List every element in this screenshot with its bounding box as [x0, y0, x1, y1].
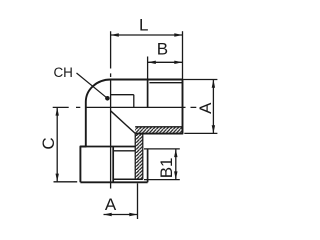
dimension A bottom — [104, 183, 138, 219]
svg-text:B: B — [157, 39, 168, 58]
bottom face — [80, 181, 147, 183]
label CH with leader — [53, 65, 109, 101]
svg-text:A: A — [105, 195, 117, 214]
socket thread top inner line — [113, 150, 135, 152]
dimension B1 — [144, 149, 180, 180]
svg-text:L: L — [139, 16, 148, 35]
hatch strip (bottom port female thread, sectioned wall) — [135, 134, 143, 180]
right port thread root thin line — [149, 82, 182, 84]
bore cone diagonal — [111, 111, 136, 134]
centerline horizontal (right port axis) — [53, 106, 197, 108]
bottom port shoulder — [80, 146, 135, 148]
body outline — [80, 80, 182, 183]
svg-text:CH: CH — [53, 65, 73, 80]
bore right edge upper — [133, 95, 135, 108]
bore top end line — [111, 94, 134, 96]
hatch band (right port male thread, sectioned bottom) — [135, 127, 182, 134]
right port shoulder — [147, 80, 149, 108]
dimension A right — [183, 80, 217, 134]
dimension L — [111, 16, 183, 80]
band top thin line — [135, 126, 182, 128]
centerline vertical (bottom port axis) — [110, 31, 112, 188]
socket bore left edge (section) — [112, 147, 114, 183]
thread strip right edge — [142, 135, 144, 180]
svg-text:C: C — [39, 137, 58, 149]
thread strip left edge — [134, 134, 136, 180]
socket mouth inner line — [113, 178, 143, 180]
svg-text:B1: B1 — [157, 158, 176, 179]
svg-text:A: A — [196, 102, 215, 114]
dimension B — [148, 39, 183, 79]
dimension C — [39, 107, 77, 181]
bottom port right face — [147, 149, 149, 182]
